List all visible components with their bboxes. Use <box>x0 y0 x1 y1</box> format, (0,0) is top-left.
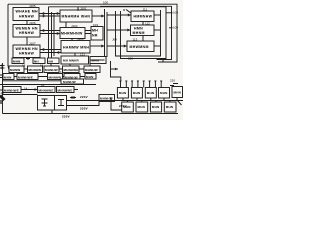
svg-text:MHNHW: MHNHW <box>100 97 113 101</box>
band vertical b <box>69 64 71 74</box>
arrow L1b <box>43 15 46 18</box>
leader 104 <box>169 27 173 29</box>
arrow M1 in <box>57 12 60 15</box>
arrow terminal 2 <box>2 67 5 69</box>
box L4a <box>12 58 24 64</box>
wire bus-R2 <box>107 29 131 31</box>
svg-text:J102: J102 <box>71 24 78 28</box>
svg-text:103: 103 <box>173 11 178 15</box>
svg-text:J106: J106 <box>29 21 36 25</box>
svg-text:20: 20 <box>1 91 5 95</box>
wire R2-R3 vertical <box>142 36 144 42</box>
svg-text:112: 112 <box>145 21 150 25</box>
svg-text:17: 17 <box>60 70 64 74</box>
svg-text:MH: MH <box>92 29 98 33</box>
bus line e <box>106 12 108 57</box>
strip box S1 <box>122 102 134 112</box>
band box B5 <box>85 74 96 80</box>
wire 220V a <box>67 100 112 102</box>
arrow L1a <box>43 12 46 15</box>
svg-text:MHN: MHN <box>166 105 173 109</box>
svg-text:MHNHW: MHNHW <box>65 75 78 79</box>
wire M2-M4 vertical <box>71 39 73 41</box>
key lead 8 <box>160 81 162 88</box>
svg-text:J104: J104 <box>77 37 84 41</box>
band wire line <box>3 84 97 86</box>
box T1 <box>61 56 89 64</box>
wire R1-R2 vertical <box>142 22 144 26</box>
keypad bus line <box>111 100 183 102</box>
svg-text:MHN: MHN <box>92 58 99 62</box>
svg-text:MHNHWE: MHNHWE <box>4 88 19 92</box>
svg-text:WEHNM HN: WEHNM HN <box>16 47 39 51</box>
frame stub right <box>162 59 164 62</box>
wire L1-L2 vertical <box>26 21 28 25</box>
svg-text:MNHRMH WHN: MNHRMH WHN <box>62 14 91 18</box>
box C1 <box>3 87 21 93</box>
frame corner band <box>8 66 9 70</box>
svg-text:NH: NH <box>34 59 39 63</box>
wire frame to keypad <box>111 61 121 81</box>
diagonal mark <box>177 100 182 105</box>
svg-text:MHNHW: MHNHW <box>49 75 62 79</box>
svg-text:MHN: MHN <box>86 75 93 79</box>
power box divider <box>54 96 56 111</box>
outer frame left vertical <box>7 4 9 66</box>
bus line a <box>48 7 50 62</box>
box C2 <box>38 87 56 93</box>
wire R3 right <box>154 45 161 47</box>
power supply box P <box>38 96 67 111</box>
arrow bus M4 <box>101 45 104 48</box>
svg-text:NH: NH <box>49 59 54 63</box>
svg-text:MHNHWE: MHNHWE <box>58 88 73 92</box>
box AC adapter <box>99 95 115 102</box>
svg-text:J11: J11 <box>143 8 148 12</box>
svg-text:15: 15 <box>22 64 26 68</box>
keypad connectors <box>123 98 177 101</box>
wire L3-M4 a <box>40 49 61 51</box>
wire M1 right <box>92 15 105 17</box>
power box ground wire <box>51 110 53 114</box>
svg-text:HAMMW MNH: HAMMW MNH <box>63 45 89 49</box>
svg-text:J101: J101 <box>80 7 87 11</box>
svg-text:MHNW: MHNW <box>10 68 20 72</box>
box D1 <box>61 79 84 84</box>
svg-text:J107: J107 <box>29 41 36 45</box>
box L2 <box>13 25 40 38</box>
band box B4 <box>64 74 80 80</box>
box M4 <box>61 41 90 54</box>
svg-text:MHN: MHN <box>147 91 154 95</box>
arrow terminal <box>2 64 5 66</box>
svg-text:MHN: MHN <box>152 105 159 109</box>
svg-text:J105: J105 <box>29 4 36 8</box>
svg-text:WHAHE MH: WHAHE MH <box>16 10 39 14</box>
band wires A <box>24 68 84 70</box>
box R3 <box>127 41 154 52</box>
svg-text:MHN: MHN <box>13 60 20 64</box>
svg-text:220: 220 <box>170 79 175 83</box>
arrow M4 in <box>58 51 61 54</box>
svg-text:MHNHWE: MHNHWE <box>18 75 33 79</box>
svg-text:MHN: MHN <box>133 91 140 95</box>
frame 2 <box>100 6 172 59</box>
battery symbol <box>42 99 48 106</box>
svg-text:J04: J04 <box>112 38 117 42</box>
svg-text:MHN: MHN <box>4 75 11 79</box>
svg-text:113: 113 <box>133 37 138 41</box>
wire bus-R1 <box>107 14 131 16</box>
plug symbol <box>58 100 64 106</box>
wire line left <box>3 94 38 96</box>
box M1 <box>60 10 92 22</box>
wire L1-M1 a <box>39 13 60 15</box>
svg-text:220V: 220V <box>80 95 88 99</box>
box L4c <box>48 58 60 64</box>
input terminal 4 <box>0 89 3 91</box>
arrow M1 top up <box>77 8 80 11</box>
svg-text:HRNHW: HRNHW <box>19 31 35 35</box>
wire L2-M2 a <box>40 30 60 32</box>
band box B3 <box>48 74 63 80</box>
arrow R1 in <box>128 14 131 17</box>
arrow R3 in <box>124 45 127 48</box>
dark corner mark <box>0 96 5 101</box>
bus line b <box>51 12 53 58</box>
svg-text:MHWMNM: MHWMNM <box>130 45 149 49</box>
svg-text:MHN: MHN <box>160 91 167 95</box>
box C3 <box>57 87 75 93</box>
svg-text:121: 121 <box>80 53 85 57</box>
arrow L3a <box>43 48 46 51</box>
band wires C <box>21 89 78 91</box>
key lead 6 <box>149 81 151 88</box>
box L3 <box>13 45 40 58</box>
key box K2 <box>131 88 142 99</box>
wire M1 top <box>77 7 79 10</box>
strip box S2 <box>136 102 148 112</box>
corner tick marks <box>0 101 3 103</box>
svg-text:220: 220 <box>128 57 133 61</box>
wire M2-M3 <box>85 31 91 34</box>
wire M4 right <box>90 45 105 47</box>
svg-text:104: 104 <box>173 26 178 30</box>
input terminal 3 <box>0 84 3 86</box>
wire L2-M2 b <box>40 33 60 35</box>
svg-text:103: 103 <box>93 23 98 27</box>
key box K3 <box>145 88 156 99</box>
band box A3 <box>44 66 59 73</box>
arrow L2a <box>43 29 46 32</box>
svg-text:HMMNHW: HMMNHW <box>134 15 153 19</box>
wire bus low <box>90 59 105 61</box>
arrow stub <box>115 68 118 70</box>
lower-left bus vertical <box>2 63 4 114</box>
frame 4 inner <box>116 10 161 56</box>
svg-text:14: 14 <box>24 87 28 91</box>
band box A4 <box>63 66 80 73</box>
component marks <box>70 96 76 99</box>
bus line d <box>100 9 105 62</box>
band box A1 <box>9 66 24 73</box>
svg-text:18: 18 <box>41 83 45 87</box>
wire R1 right <box>154 14 161 16</box>
input terminal 1 <box>0 66 5 69</box>
svg-text:220V: 220V <box>80 107 88 111</box>
strip box S4 <box>164 102 176 112</box>
svg-text:MHNHW: MHNHW <box>45 68 58 72</box>
frame 3 <box>49 7 167 59</box>
wire M4 bottom <box>74 53 76 56</box>
arrow C2 in <box>35 88 38 90</box>
svg-text:MHNHW: MHNHW <box>29 68 42 72</box>
wire R2 right <box>154 29 161 31</box>
key box K1 <box>117 88 128 99</box>
key lead 3 <box>131 81 133 88</box>
wire L1-M1 b <box>39 15 60 17</box>
key lead 4 <box>137 81 139 88</box>
svg-text:16: 16 <box>40 63 44 67</box>
band box B2 <box>17 74 38 80</box>
outer frame <box>8 4 177 62</box>
bottom long line <box>3 113 179 115</box>
wire R1 corner <box>124 9 131 13</box>
arrow bus M1 <box>101 15 104 18</box>
stub wire <box>111 68 119 70</box>
svg-text:MHNHWE: MHNHWE <box>39 88 54 92</box>
svg-text:MHN: MHN <box>174 90 181 94</box>
key box K4 <box>159 88 170 99</box>
key lead 2 <box>125 81 127 88</box>
scan noise overlay <box>2 2 180 114</box>
svg-text:HMN: HMN <box>134 27 143 31</box>
svg-text:220V: 220V <box>62 115 70 119</box>
input terminal 2 <box>0 75 3 78</box>
svg-text:HRNHW: HRNHW <box>19 52 35 56</box>
label dashes K5 <box>170 84 178 86</box>
band box A2 <box>28 66 43 73</box>
svg-text:MHRMHNW: MHRMHNW <box>61 31 83 35</box>
strip connectors <box>128 101 171 103</box>
arrow R2 in <box>127 29 130 32</box>
svg-text:NR: NR <box>92 33 98 37</box>
svg-text:220V: 220V <box>119 104 127 108</box>
box M3 <box>91 27 103 41</box>
key lead 1 <box>120 81 122 88</box>
bus line c <box>53 14 55 56</box>
svg-text:MHNHW: MHNHW <box>63 80 76 84</box>
wire 220V b <box>67 102 100 106</box>
svg-text:MH MNHR: MH MNHR <box>63 59 80 63</box>
wire M1-M2 vertical <box>65 22 67 28</box>
wire bus-R3 <box>107 45 127 47</box>
svg-text:MHNM: MHNM <box>133 31 145 35</box>
box M2 <box>60 28 85 39</box>
leader 103 <box>166 12 173 14</box>
box R1 <box>131 11 154 22</box>
wire L3-M4 b <box>40 52 61 54</box>
svg-text:MHN: MHN <box>119 91 126 95</box>
band wires B <box>14 76 85 78</box>
box T2 <box>90 57 106 64</box>
band box A5 <box>84 66 100 73</box>
box K5 right <box>172 87 183 98</box>
box L4b <box>33 58 45 64</box>
key lead 5 <box>143 81 145 88</box>
svg-text:MHNHW: MHNHW <box>85 68 98 72</box>
band wire line 2 <box>3 80 62 82</box>
arrow M2 in <box>57 32 60 35</box>
band vertical a <box>50 64 52 67</box>
band vertical c <box>89 64 91 74</box>
wire L3-L4 vertical <box>18 57 41 60</box>
strip box S3 <box>150 102 161 112</box>
svg-text:100: 100 <box>103 1 108 5</box>
corner wire right <box>111 97 122 110</box>
svg-text:MHNHWE: MHNHWE <box>64 68 79 72</box>
svg-text:WEMEN HN: WEMEN HN <box>16 26 38 30</box>
box L1 <box>13 8 39 21</box>
svg-text:MHN: MHN <box>138 105 145 109</box>
key lead 7 <box>154 81 156 88</box>
tick marks mini <box>26 57 30 60</box>
band box B1 <box>3 74 14 80</box>
wire L2-L3 vertical <box>26 37 28 45</box>
box R2 <box>131 25 155 36</box>
svg-text:HRNHW: HRNHW <box>19 14 35 18</box>
